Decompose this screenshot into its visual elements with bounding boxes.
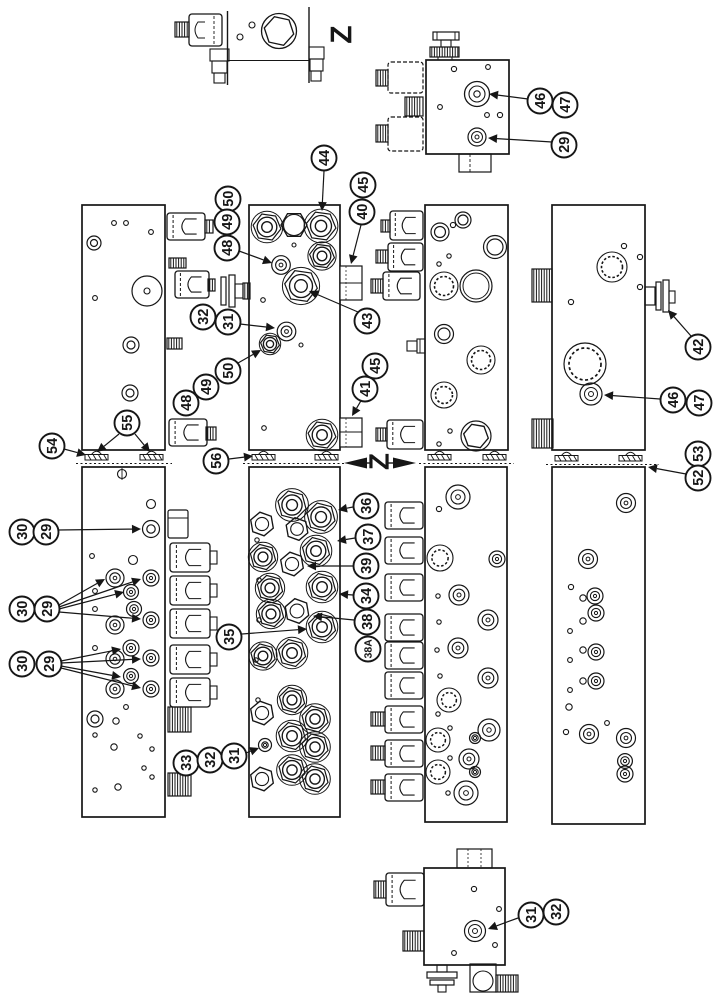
top-left small hole upper (249, 22, 255, 28)
balloon 46 right (661, 388, 686, 413)
solenoid valve lower strip A1 (170, 543, 217, 572)
block 2 small orifice (item 48) (272, 256, 291, 275)
balloon 47 top-right (553, 93, 578, 118)
top-left small hole lower (237, 34, 243, 40)
balloon 50 mid (216, 359, 241, 384)
top-left solenoid hex bolt (175, 22, 189, 37)
solenoid valve lower strip B6 (385, 672, 423, 699)
leader arrow 29 (488, 134, 552, 143)
balloon 29 pair3 (37, 652, 62, 677)
balloon 38 (355, 610, 380, 635)
solenoid valve lower strip B bolt 3 (371, 774, 423, 801)
cylinder fitting lower strip A (168, 510, 188, 538)
block 3 holes b (437, 254, 451, 266)
solenoid valve lower strip B4 (385, 614, 423, 641)
manifold block 1 upper section (82, 205, 165, 450)
block 3 port c (484, 236, 507, 259)
section arrow Z left (344, 458, 372, 469)
threaded fitting item 33 lower (168, 773, 191, 796)
block 2 bottom cartridge plug (306, 419, 338, 451)
block 1 lower orifice cluster 1 (106, 569, 159, 617)
section label Z middle (369, 454, 388, 469)
block 2 upper small holes (261, 243, 303, 430)
balloon 45 mid (363, 354, 388, 379)
block 4 upper mounting feet (546, 452, 659, 464)
balloon 46 top-right (528, 89, 553, 114)
leader arrow 41 (352, 399, 362, 416)
solenoid valve lower strip B bolt 1 (371, 706, 423, 733)
block 1 lower hole b (90, 554, 138, 565)
block 1 lower bottom holes (93, 705, 154, 793)
solenoid valve lower strip A5 (170, 678, 217, 707)
top-left solenoid valve body (189, 14, 222, 46)
block 2 hex plug row 1 middle (281, 214, 307, 237)
block 3 hole a (450, 222, 455, 227)
balloon 43 (355, 309, 380, 334)
balloon 29 pair1 (34, 520, 59, 545)
leader arrow 31 mid (240, 323, 275, 332)
block 2 orifice pair (item 31) (277, 322, 296, 341)
manifold block 4 upper section (552, 205, 645, 450)
balloon 31 mid (216, 310, 241, 335)
balloon 49 mid (194, 375, 219, 400)
solenoid valve lower strip B1 (385, 502, 423, 529)
balloon 30 pair3 (10, 652, 35, 677)
balloon 55 (115, 411, 140, 436)
block 3 large port right (460, 270, 492, 302)
block 1 lower orifice cluster 2 (106, 612, 159, 656)
block 3 port a (455, 212, 471, 228)
block 2 small plug (item 50) (259, 333, 280, 354)
block 2 cartridge plug row 1 right (item 44) (304, 209, 338, 243)
balloon 36 (354, 494, 379, 519)
top-right solenoid lower (376, 117, 423, 151)
leader arrow 46 (489, 91, 528, 100)
leader arrow 35 (242, 625, 307, 634)
block 3 port e (467, 346, 495, 374)
balloon 49 left (215, 210, 240, 235)
small bolt strip A (167, 338, 182, 349)
top-right relief valve port (item 46/47) (465, 82, 490, 107)
bottom block port (item 31/32) (465, 921, 486, 942)
leader arrow 50 mid (238, 350, 261, 363)
balloon 41 (353, 377, 378, 402)
balloon 50 left (216, 187, 241, 212)
block 3 bottom hex port (461, 421, 491, 451)
top-right pilot valve block (426, 60, 509, 154)
solenoid valve strip B3 (371, 272, 420, 300)
top-right adjuster T-handle (430, 32, 459, 60)
leader arrow 48 left (239, 251, 272, 264)
block 4 orifice plug (item 46/47 view) (580, 383, 602, 405)
top-left hex port boss (262, 14, 297, 49)
bottom block left solenoid (374, 873, 424, 906)
block 4 lower ports and holes (563, 494, 635, 783)
balloon 34 (354, 584, 379, 609)
leader arrows 55 (97, 434, 150, 452)
block 1 lower hole d (93, 646, 98, 651)
leader arrow 31 bottom assembly (488, 918, 518, 930)
plug on block 2 right edge (item 40) (340, 266, 362, 300)
balloon 44 (312, 146, 337, 171)
label Z top-left (331, 26, 352, 43)
manifold block 1 lower section (82, 467, 165, 817)
plug on block 2 right edge (item 41) (340, 418, 362, 447)
solenoid valve strip A2 with bolt (169, 258, 215, 298)
leader arrow 31 bottom (246, 747, 259, 755)
block 1 upper small holes (93, 221, 154, 301)
leader arrow 43 (309, 291, 358, 313)
block 4 left hex plug lower (532, 419, 553, 448)
block 2 lower cartridge plug cluster (248, 489, 338, 795)
leader arrow 52 (648, 464, 686, 474)
block 3 port b (431, 223, 449, 241)
balloon 40 (350, 200, 375, 225)
leader arrow 34 (339, 590, 353, 599)
leader arrow 38 (313, 613, 354, 622)
block 3 gauge port left (430, 272, 458, 300)
manifold block 2 lower section (249, 467, 340, 817)
balloon 47 right (687, 391, 712, 416)
bottom block left fitting (403, 931, 424, 951)
block 4 holes a (568, 243, 642, 304)
balloon 45 upper (351, 173, 376, 198)
leader arrow 39 (307, 562, 353, 571)
breather fitting item 42 on block 4 right edge (645, 280, 675, 312)
balloon 29 pair2 (35, 597, 60, 622)
top-right bottom fitting (459, 154, 491, 172)
block 3 holes c (437, 429, 452, 446)
solenoid valve lower strip A3 (170, 609, 217, 638)
block 2 large cartridge (item 43) (282, 267, 319, 304)
leader arrows 29 pair2 (59, 578, 141, 623)
block 3 port d (435, 325, 454, 344)
solenoid valve strip B4 (376, 420, 423, 449)
bottom block threaded plug (496, 975, 518, 992)
small fitting strip B (407, 339, 425, 353)
leader arrows 29 pair3 (61, 647, 141, 691)
block 1 lower hole c (93, 589, 98, 612)
manifold block 3 upper section (425, 205, 508, 450)
solenoid valve lower strip B5 (385, 642, 423, 669)
bottom block top fitting (457, 849, 492, 868)
spool coupler between block1 and block2 (221, 275, 250, 307)
block 1 lower plug target of 29 (143, 521, 160, 538)
balloon 32 bottom assembly (544, 900, 569, 925)
balloon 30 pair1 (10, 520, 35, 545)
balloon 42 (686, 335, 711, 360)
leader arrow 44 (318, 171, 327, 211)
block 1 upper port B (123, 337, 139, 353)
block 1 lower orifice cluster 3 (106, 650, 159, 698)
balloon 37 (356, 525, 381, 550)
block 2 lower small holes (254, 538, 261, 702)
top-right hex nut left (405, 97, 423, 116)
balloon 39 (354, 554, 379, 579)
block 1 upper port C (122, 385, 138, 401)
balloon 56 (204, 449, 229, 474)
manifold block 3 lower section (425, 467, 507, 822)
block 2 upper mounting feet (243, 451, 346, 463)
block 3 lower ports and holes (426, 485, 505, 805)
top-right small holes (438, 65, 503, 118)
section arrow Z right (388, 458, 416, 469)
block 4 left hex plug upper (532, 269, 552, 302)
bottom block T-handle (427, 965, 457, 992)
threaded fitting item 33 upper (168, 707, 191, 732)
balloon 48 left (215, 236, 240, 261)
solenoid valve lower strip B bolt 2 (371, 740, 423, 767)
leader arrow 29 pair1 (58, 525, 141, 534)
bottom block outlet fitting (470, 964, 496, 992)
manifold block 2 upper section (249, 205, 340, 450)
balloon 31 bottom assembly (519, 903, 544, 928)
balloon 33 bottom (174, 751, 199, 776)
manifold block 4 lower section (552, 467, 645, 824)
top-left stud nuts right (309, 47, 324, 81)
top-left end view: mounting plate lines (228, 7, 310, 85)
block 4 upper port (597, 252, 627, 282)
solenoid valve strip A1 (167, 213, 213, 240)
block 4 main gauge port (564, 343, 606, 385)
balloon 48 mid (174, 391, 199, 416)
leader arrow 46 right (604, 391, 660, 400)
bottom pilot valve block (424, 868, 505, 965)
block 1 lower orientation pin (118, 468, 127, 480)
leader arrow 54 (64, 448, 86, 457)
balloon 30 pair2 (10, 597, 35, 622)
solenoid valve strip A3 (169, 419, 216, 446)
block 1 upper mounting feet (76, 451, 172, 463)
solenoid valve strip B1 (381, 211, 423, 240)
block 1 lower hole a (147, 500, 156, 509)
balloon 35 (217, 625, 242, 650)
block 1 upper large boss (132, 276, 162, 306)
top-left stud nuts left (210, 49, 229, 83)
leader arrow 40 (349, 225, 361, 264)
leader arrow 36 (338, 504, 353, 513)
balloon 32 bottom (198, 748, 223, 773)
top-right orifice plug (item 29) (468, 128, 486, 146)
leader arrow 37 (337, 535, 355, 544)
solenoid valve lower strip B2 (385, 537, 423, 564)
balloon 53 (686, 442, 711, 467)
block 3 port f (431, 382, 457, 408)
leader arrow 42 (668, 310, 691, 336)
block 1 lower port bottom (87, 711, 103, 727)
balloon 52 (686, 466, 711, 491)
balloon 32 mid (191, 305, 216, 330)
block 2 cartridge plug row 1 left (251, 211, 283, 243)
bottom block small holes (452, 886, 502, 955)
solenoid valve lower strip A4 (170, 645, 217, 674)
balloon 29 top-right (552, 133, 577, 158)
balloon 54 (40, 434, 65, 459)
solenoid valve lower strip A2 (170, 576, 217, 605)
solenoid valve strip B2 (376, 243, 423, 271)
balloon 38A (356, 637, 381, 662)
solenoid valve lower strip B3 (385, 574, 423, 601)
block 1 upper port A (87, 236, 101, 250)
top-right solenoid upper (376, 62, 423, 93)
balloon 31 bottom (222, 744, 247, 769)
leader arrow 56 (229, 453, 253, 462)
block 3 upper mounting feet (419, 451, 514, 463)
block 2 cartridge plug row 2 (item not shown) (308, 242, 336, 270)
